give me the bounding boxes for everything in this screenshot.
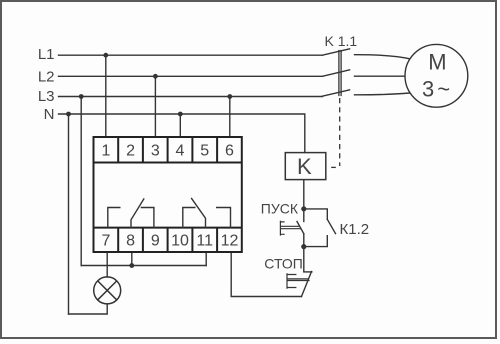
auxiliary contact K1.2 lower stub — [304, 236, 328, 247]
svg-text:3: 3 — [151, 143, 160, 160]
svg-text:СТОП: СТОП — [264, 255, 303, 271]
wire L3 line — [59, 96, 323, 98]
relay contact 1 fixed contact pin 9 — [141, 208, 154, 228]
wire L3 left drop — [80, 97, 82, 266]
K1.1 linkage bars — [339, 51, 341, 96]
svg-text:L1: L1 — [38, 46, 55, 63]
svg-text:9: 9 — [151, 233, 160, 250]
start button SB1 actuator — [280, 221, 300, 235]
wire lamp to N — [69, 304, 108, 314]
svg-text:1: 1 — [101, 143, 110, 160]
K1.1 pole 3 blade — [322, 90, 349, 96]
svg-text:12: 12 — [221, 233, 239, 250]
wire under terminals 8-11 — [81, 265, 206, 267]
wire pole 2 to motor — [355, 75, 406, 77]
svg-text:6: 6 — [225, 143, 234, 160]
node N tap left — [66, 112, 71, 117]
wire N left drop — [68, 114, 70, 314]
relay contact 2 fixed contact pin 12 — [217, 208, 231, 228]
node L2 tap — [153, 74, 158, 79]
node start junction bottom — [301, 244, 306, 249]
node L3 tap right — [227, 94, 232, 99]
wire L2 drop to terminal 3 — [154, 76, 156, 137]
relay contact 1 blade pin 8 — [131, 199, 144, 228]
node L3 tap left — [79, 94, 84, 99]
stop button SB2 blade — [302, 272, 312, 297]
svg-text:3~: 3~ — [422, 77, 453, 102]
terminal dividers top row — [118, 137, 217, 163]
terminal dividers bottom row — [118, 228, 217, 252]
svg-text:11: 11 — [196, 233, 213, 250]
svg-text:K: K — [297, 154, 312, 179]
contactor contacts K1.1 — [322, 49, 409, 96]
svg-text:K 1.1: K 1.1 — [325, 33, 358, 49]
node start junction top — [301, 206, 306, 211]
motor M — [405, 44, 468, 107]
wire stub terminal 11 — [205, 252, 207, 266]
svg-text:M: M — [428, 50, 446, 75]
svg-text:К1.2: К1.2 — [340, 221, 370, 238]
contactor coil K — [285, 153, 326, 180]
start button SB1 lower stub — [303, 234, 305, 247]
svg-text:7: 7 — [101, 233, 110, 250]
stop button SB2 seat — [304, 271, 312, 273]
svg-text:4: 4 — [176, 143, 185, 160]
relay contact 2 fixed contact pin 10 — [183, 208, 195, 228]
wire pole 3 to motor — [355, 93, 410, 95]
wire pole 1 to motor — [355, 55, 410, 59]
stop button SB2 actuator — [287, 274, 309, 288]
svg-text:5: 5 — [200, 143, 209, 160]
K1.1 pole 1 blade — [322, 49, 349, 55]
relay U1 body — [94, 137, 242, 252]
start button SB1 blade — [297, 222, 304, 234]
wire L1 line — [59, 54, 323, 56]
wire terminal 12 to stop button — [231, 252, 301, 297]
wire N line to coil K — [59, 114, 305, 153]
node L1 tap — [103, 53, 108, 58]
auxiliary contact K1.2 blade — [327, 219, 335, 233]
wire terminal 7 to lamp — [106, 252, 108, 277]
wire L2 line — [59, 75, 323, 77]
svg-text:ПУСК: ПУСК — [261, 201, 299, 217]
svg-text:L2: L2 — [38, 68, 55, 85]
wire coil K to start button — [303, 180, 305, 209]
svg-text:10: 10 — [171, 233, 189, 250]
wire stub terminal 8 — [131, 252, 133, 266]
svg-text:L3: L3 — [38, 88, 55, 105]
relay contact 1 fixed contact pin 7 — [108, 208, 120, 228]
dashed linkage K1.1 to coil — [339, 98, 341, 166]
svg-text:2: 2 — [126, 143, 135, 160]
node terminal 8 junction — [129, 263, 134, 268]
svg-text:8: 8 — [126, 233, 135, 250]
lamp HL1 — [94, 277, 121, 304]
wire L3 drop to terminal 6 — [229, 97, 231, 138]
node N tap — [178, 112, 183, 117]
K1.1 pole 2 blade — [322, 70, 349, 76]
auxiliary contact K1.2 branch — [304, 209, 328, 219]
relay contact 2 blade pin 11 — [192, 199, 206, 228]
start button SB1 upper stub — [303, 209, 305, 222]
wire L1 drop to terminal 1 — [105, 55, 107, 137]
stop button SB2 upper stub — [303, 247, 305, 272]
wire N drop to terminal 4 — [179, 114, 181, 137]
svg-text:N: N — [44, 106, 55, 123]
